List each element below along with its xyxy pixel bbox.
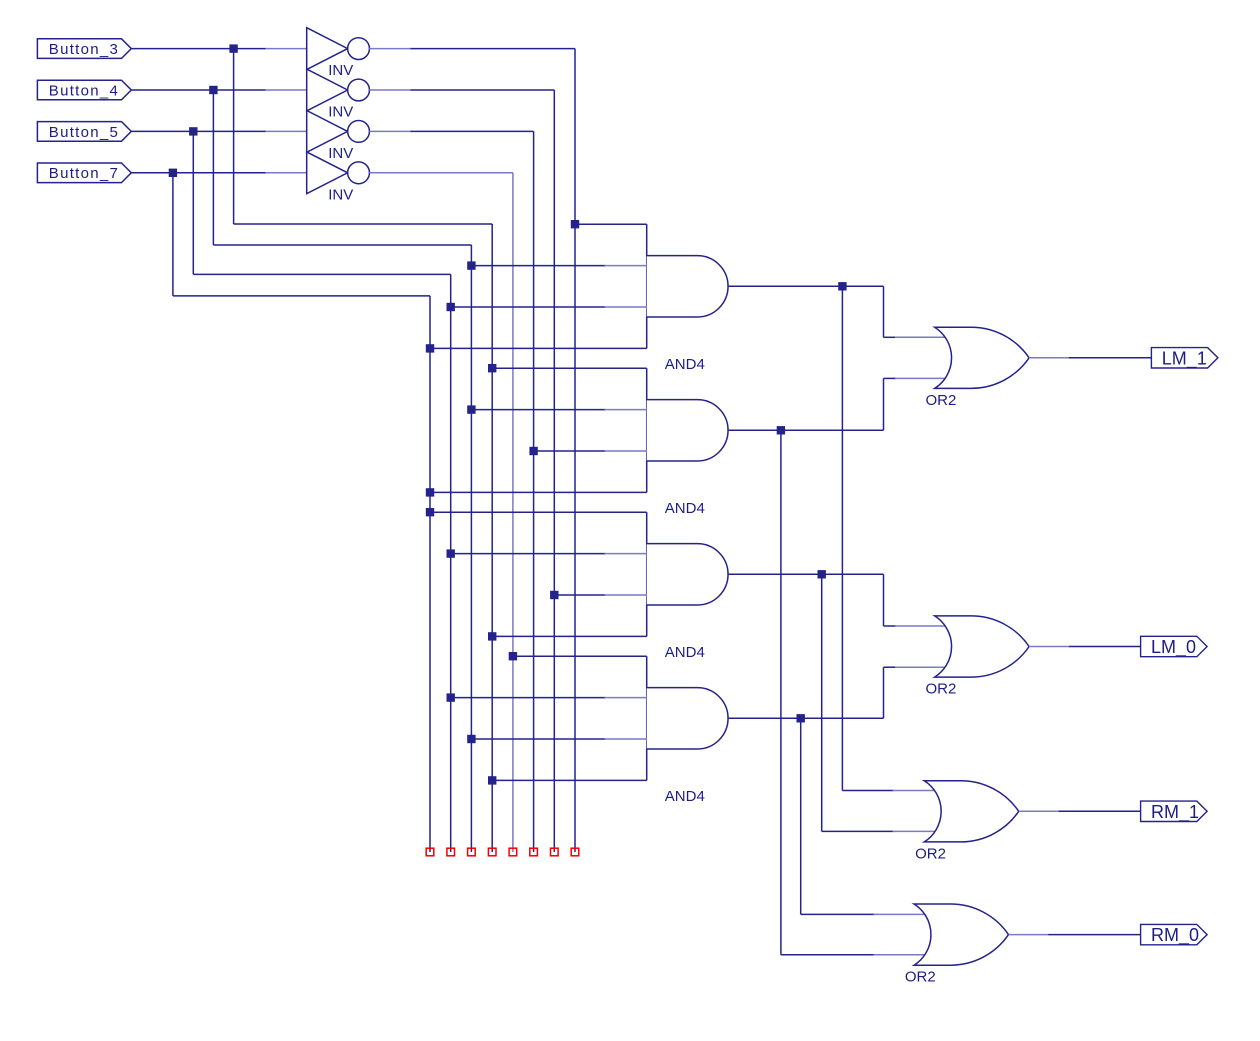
unconnected pin marker 1: [426, 848, 434, 856]
svg-text:INV: INV: [328, 62, 353, 79]
wire AND1 input 1: [575, 223, 647, 225]
junction AND1.in3: [447, 303, 455, 311]
wire AND4 branch vertical to OR4: [800, 718, 802, 914]
INV3 output pin stub: [369, 130, 410, 132]
input port tag Button_4: [37, 80, 131, 100]
wire AND3 input 3: [554, 594, 605, 596]
wire INV2 output: [410, 89, 554, 91]
AND4 gate 4 body: [647, 656, 728, 780]
junction AND4.in4: [488, 776, 496, 784]
output port tag LM_0: [1141, 636, 1208, 656]
OR2 gate 2 body: [935, 616, 1029, 677]
wire AND4 input 3: [471, 738, 605, 740]
svg-text:OR2: OR2: [926, 681, 957, 698]
input port tag Button_5: [37, 122, 131, 142]
OR3 input pin stub 1: [893, 790, 935, 792]
input port tag Button_3: [37, 39, 131, 59]
wire Button_4 router row: [213, 244, 471, 246]
junction on AND3 output: [818, 570, 826, 578]
junction on Button_7 net: [169, 169, 177, 177]
OR4 input pin stub 2: [874, 954, 925, 956]
junction AND3.in1: [426, 508, 434, 516]
wire AND2 input 4: [430, 491, 647, 493]
wire AND2 out corner up to OR1.in2: [883, 378, 885, 430]
wire AND2 input 3: [534, 450, 606, 452]
OR2 gate 3 body: [924, 781, 1018, 842]
wire AND3 out corner down to OR2.in1: [883, 574, 885, 626]
wire AND2 output: [728, 429, 884, 431]
svg-text:Button_3: Button_3: [49, 41, 119, 58]
AND2 input pin stub 2: [605, 409, 647, 411]
junction on Button_5 net: [189, 127, 197, 135]
svg-text:LM_1: LM_1: [1162, 348, 1207, 369]
wire INV1 output: [410, 48, 575, 50]
AND1 input pin stub 2: [605, 265, 647, 267]
wire Button_3 router row: [234, 223, 493, 225]
wire AND1 output: [728, 285, 884, 287]
wire AND1 input 4: [430, 347, 647, 349]
svg-text:OR2: OR2: [905, 969, 936, 986]
wire Button_3 bus column: [491, 224, 493, 852]
wire AND1 input 2: [471, 265, 605, 267]
wire OR3.in2 horizontal: [822, 830, 894, 832]
OR4 output pin stub: [1009, 934, 1049, 936]
wire Button_7 vertical drop: [172, 173, 174, 296]
OR1 input pin stub 1: [895, 336, 946, 338]
junction on AND2 output: [777, 426, 785, 434]
wire Button_4 vertical drop: [212, 90, 214, 245]
wire Button_4 to INV2 input: [131, 89, 265, 91]
wire OR4 to RM_0: [1048, 934, 1140, 936]
svg-text:RM_0: RM_0: [1151, 925, 1199, 946]
wire Button_4 bus column: [470, 245, 472, 852]
svg-text:INV: INV: [328, 104, 353, 121]
svg-text:Button_5: Button_5: [49, 124, 119, 141]
input port tag Button_7: [37, 163, 131, 183]
svg-text:OR2: OR2: [926, 392, 957, 409]
unconnected pin marker 8: [571, 848, 579, 856]
AND4 gate 1 body: [647, 224, 728, 348]
junction AND4.in3: [467, 735, 475, 743]
inverter INV2: [266, 69, 370, 111]
junction AND3.in2: [447, 549, 455, 557]
output port tag LM_1: [1151, 348, 1218, 368]
wire OR1 to LM_1: [1069, 357, 1152, 359]
AND1 input pin stub 3: [605, 306, 647, 308]
junction AND4.in2: [447, 693, 455, 701]
junction AND3.in4: [488, 632, 496, 640]
junction AND2.in1: [488, 364, 496, 372]
wire OR2 to LM_0: [1069, 646, 1141, 648]
INV2 output bus column: [553, 90, 555, 852]
junction AND2.in2: [467, 405, 475, 413]
OR4 input pin stub 1: [874, 913, 925, 915]
OR3 output pin stub: [1019, 810, 1059, 812]
junction AND2.in4: [426, 488, 434, 496]
wire OR4.in1 horizontal: [801, 913, 875, 915]
wire AND4 out corner up to OR2.in2: [883, 667, 885, 718]
inverter INV1: [266, 28, 370, 70]
wire INV3 output: [410, 130, 533, 132]
wire Button_7 router row: [173, 295, 430, 297]
OR2 output pin stub: [1029, 646, 1069, 648]
wire Button_7 to INV4 input: [131, 172, 265, 174]
output port tag RM_0: [1141, 924, 1208, 944]
junction AND4.in1: [509, 652, 517, 660]
AND4 input pin stub 2: [605, 697, 647, 699]
OR1 output pin stub: [1029, 357, 1069, 359]
wire OR2.in1 horizontal: [884, 625, 897, 627]
wire Button_5 vertical drop: [192, 131, 194, 274]
wire AND4 output: [728, 717, 884, 719]
junction AND1.in1: [571, 220, 579, 228]
wire AND2 input 2: [471, 409, 605, 411]
wire AND1 input 3: [451, 306, 606, 308]
wire Button_3 vertical drop: [233, 49, 235, 224]
wire AND3 branch vertical to OR3: [821, 574, 823, 831]
OR2 gate 1 body: [935, 327, 1029, 388]
junction on Button_4 net: [209, 86, 217, 94]
wire AND1 branch vertical to OR3: [841, 286, 843, 790]
wire OR4.in2 horizontal: [781, 954, 875, 956]
svg-text:INV: INV: [328, 186, 353, 203]
AND3 input pin stub 3: [605, 594, 647, 596]
junction on Button_3 net: [229, 44, 237, 52]
wire AND3 input 1: [430, 511, 647, 513]
unconnected pin marker 2: [447, 848, 455, 856]
wire AND3 output: [728, 573, 884, 575]
wire Button_7 bus column: [429, 296, 431, 852]
svg-text:Button_4: Button_4: [49, 82, 119, 99]
svg-text:LM_0: LM_0: [1151, 637, 1196, 658]
unconnected pin marker 4: [488, 848, 496, 856]
svg-text:Button_7: Button_7: [49, 165, 119, 182]
junction AND3.in3: [550, 591, 558, 599]
INV2 output pin stub: [369, 89, 410, 91]
wire AND3 input 4: [492, 635, 647, 637]
svg-text:AND4: AND4: [665, 644, 705, 661]
output port tag RM_1: [1141, 801, 1208, 821]
unconnected pin marker 6: [530, 848, 538, 856]
wire Button_3 to INV1 input: [131, 48, 265, 50]
wire Button_5 to INV3 input: [131, 130, 265, 132]
OR2 input pin stub 2: [895, 666, 946, 668]
svg-text:AND4: AND4: [665, 788, 705, 805]
wire OR3.in1 horizontal: [842, 790, 893, 792]
unconnected pin marker 7: [551, 848, 559, 856]
wire AND1 out corner down to OR1.in1: [883, 286, 885, 337]
junction AND1.in4: [426, 344, 434, 352]
wire OR3 to RM_1: [1059, 810, 1141, 812]
unconnected pin marker 5: [509, 848, 517, 856]
wire OR1.in1 horizontal: [884, 336, 897, 338]
unconnected pin marker 3: [468, 848, 476, 856]
wire Button_5 bus column: [450, 274, 452, 852]
svg-text:INV: INV: [328, 145, 353, 162]
junction AND1.in2: [467, 261, 475, 269]
inverter INV4: [266, 152, 370, 194]
wire AND2 branch vertical to OR4: [780, 430, 782, 955]
wire AND4 input 4: [492, 779, 647, 781]
wire AND3 input 2: [451, 553, 606, 555]
wire OR2.in2 horizontal: [884, 666, 897, 668]
wire AND2 input 1: [492, 367, 647, 369]
OR2 input pin stub 1: [895, 625, 946, 627]
AND4 gate 3 body: [647, 512, 728, 636]
AND2 input pin stub 3: [605, 450, 647, 452]
AND4 input pin stub 3: [605, 738, 647, 740]
INV1 output bus column: [574, 49, 576, 852]
junction on AND4 output: [797, 714, 805, 722]
junction AND2.in3: [529, 447, 537, 455]
INV3 output bus column: [533, 131, 535, 852]
wire Button_5 router row: [193, 273, 450, 275]
inverter INV3: [266, 111, 370, 153]
junction on AND1 output: [838, 282, 846, 290]
AND3 input pin stub 2: [605, 553, 647, 555]
OR3 input pin stub 2: [893, 830, 935, 832]
wire AND4 input 2: [451, 697, 606, 699]
svg-text:RM_1: RM_1: [1151, 802, 1199, 823]
INV4 output pin stub and wire (light net): [369, 172, 513, 174]
svg-text:OR2: OR2: [915, 845, 946, 862]
OR1 input pin stub 2: [895, 377, 946, 379]
wire AND4 input 1: [513, 655, 647, 657]
svg-text:AND4: AND4: [665, 356, 705, 373]
OR2 gate 4 body: [914, 904, 1008, 965]
svg-text:AND4: AND4: [665, 500, 705, 517]
INV4 output bus column (light net): [512, 173, 514, 852]
INV1 output pin stub: [369, 48, 410, 50]
AND4 gate 2 body: [647, 368, 728, 492]
wire OR1.in2 horizontal: [884, 377, 897, 379]
